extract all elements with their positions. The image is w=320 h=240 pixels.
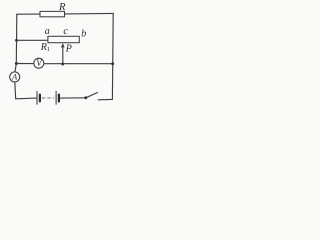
slider arrowhead (pointer P) xyxy=(61,43,65,47)
rheostat R1 (box) xyxy=(48,36,79,42)
junction node: right wire / voltmeter branch xyxy=(111,62,114,65)
wire: voltmeter branch right segment to right wire xyxy=(44,63,113,65)
wire: left vertical upper (top corner through junctions to ammeter) xyxy=(15,14,17,72)
wire: right vertical xyxy=(111,13,114,99)
junction node: left wire / rheostat feed xyxy=(15,39,18,42)
wire: switch fixed contact to bottom-right corner xyxy=(98,98,112,100)
dashed wire between battery cells xyxy=(42,97,54,99)
svg-text:R: R xyxy=(58,2,66,13)
switch pivot dot xyxy=(84,96,87,99)
wire: voltmeter branch left segment xyxy=(16,63,34,65)
wire: top-left corner to resistor R xyxy=(17,13,40,15)
wire: slider P stem down to voltmeter branch xyxy=(62,46,64,64)
switch blade (open) xyxy=(86,93,98,98)
svg-text:b: b xyxy=(81,28,86,39)
battery cell 1: short thick plate xyxy=(39,95,41,102)
voltmeter V xyxy=(34,58,44,68)
svg-text:P: P xyxy=(65,43,72,54)
ammeter A xyxy=(10,72,20,82)
wire: bottom-left corner to battery xyxy=(16,97,37,100)
junction node: left wire / voltmeter branch xyxy=(15,62,18,65)
svg-text:a: a xyxy=(45,26,50,37)
battery cell 2: short thick plate xyxy=(58,95,60,102)
wire: left vertical below ammeter xyxy=(14,82,17,99)
junction node: slider stem / voltmeter branch xyxy=(61,63,64,66)
resistor R (box) xyxy=(40,11,65,16)
svg-text:A: A xyxy=(11,73,18,82)
wire: resistor R to top-right corner xyxy=(65,12,114,15)
wire: rheostat feed from left wire to R1 box xyxy=(17,39,48,41)
wire: battery to switch pivot xyxy=(60,97,85,99)
svg-text:c: c xyxy=(63,26,68,37)
battery cell 1: long thin plate xyxy=(36,92,38,105)
battery cell 2: long thin plate xyxy=(55,91,57,104)
